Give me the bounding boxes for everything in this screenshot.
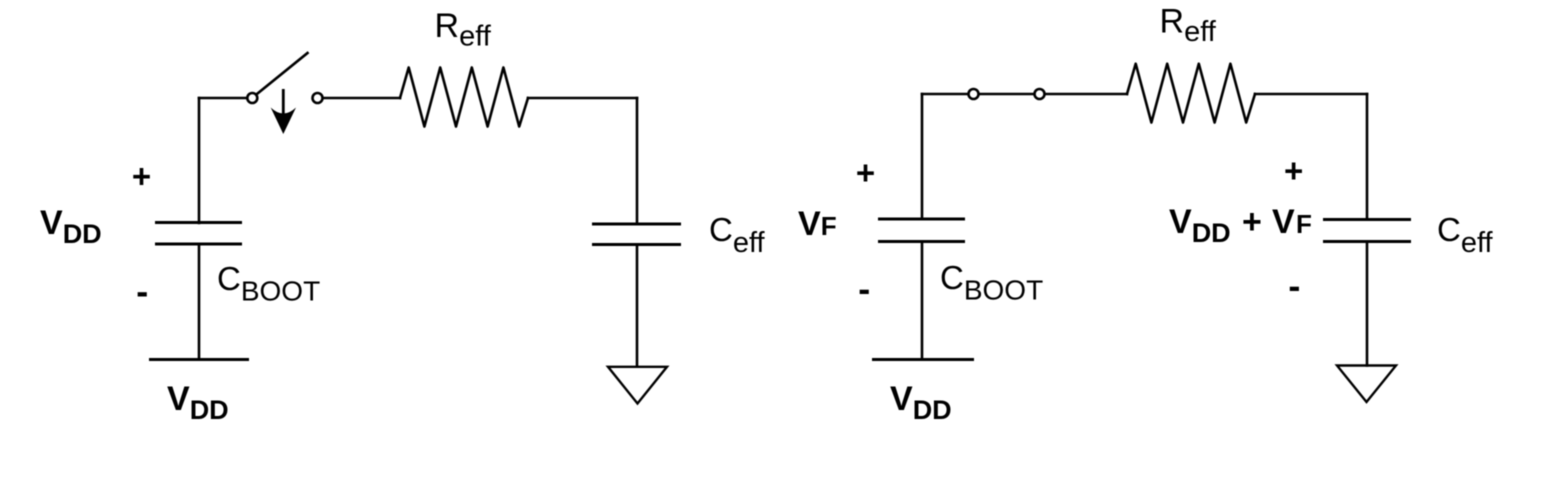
wire: C_BOOT to VDD rail (right) [921, 242, 924, 360]
wire: down to Ceff [636, 98, 639, 224]
svg-text:-: - [136, 271, 148, 312]
wire: Ceff to ground (right) [1366, 242, 1369, 366]
resistor Reff (left) [400, 68, 528, 127]
wire: resistor to Ceff corner [528, 97, 637, 100]
ground symbol (left) [608, 367, 667, 404]
svg-text:-: - [1288, 265, 1300, 306]
svg-text:VF: VF [798, 205, 837, 243]
open contact circle (left, right circuit) [969, 89, 979, 99]
capacitor C_BOOT (left) plates [155, 221, 242, 224]
wire: resistor to Ceff corner (right) [1255, 93, 1367, 96]
capacitor Ceff (right) plates [1323, 218, 1411, 221]
switch S1 left contact circle [247, 93, 257, 103]
svg-text:+: + [132, 158, 151, 195]
svg-text:-: - [858, 268, 870, 309]
wire: down to Ceff (right) [1366, 94, 1369, 220]
svg-text:+: + [856, 154, 875, 191]
capacitor C_BOOT (right) plates [878, 218, 965, 221]
VDD rail bar (right) [872, 358, 974, 361]
wire: C_BOOT to VDD rail [198, 244, 201, 359]
wire: Ceff to ground [636, 245, 639, 367]
open contact circle (right, right circuit) [1035, 89, 1045, 99]
ground symbol (right) [1337, 366, 1396, 403]
wire: top horizontal to switch [199, 97, 247, 100]
VDD rail bar (left) [149, 358, 249, 361]
switch S1 closing arrow (down) [282, 89, 285, 116]
wire: C_BOOT top to corner (vertical, right circuit) [921, 94, 924, 219]
capacitor Ceff (left) plates [592, 223, 681, 226]
switch S1 arm (open, raised) [258, 53, 308, 94]
wire: between contacts [979, 93, 1034, 96]
wire: C_BOOT top to switch corner (vertical) [198, 98, 201, 223]
svg-text:+: + [1284, 152, 1303, 189]
wire: top horizontal to left contact [922, 93, 968, 96]
wire: contact to resistor [1045, 93, 1127, 96]
switch S1 right contact circle [313, 93, 323, 103]
resistor Reff (right) [1127, 64, 1255, 123]
wire: switch to resistor [323, 97, 400, 100]
